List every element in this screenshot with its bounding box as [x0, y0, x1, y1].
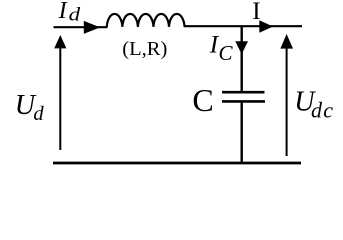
svg-text:dc: dc	[311, 98, 334, 123]
svg-text:C: C	[192, 82, 213, 118]
svg-text:I: I	[252, 0, 260, 25]
svg-text:d: d	[69, 5, 81, 26]
svg-text:(L,R): (L,R)	[122, 38, 167, 60]
svg-text:d: d	[33, 103, 44, 125]
svg-text:I: I	[58, 0, 68, 24]
svg-text:C: C	[219, 41, 234, 65]
